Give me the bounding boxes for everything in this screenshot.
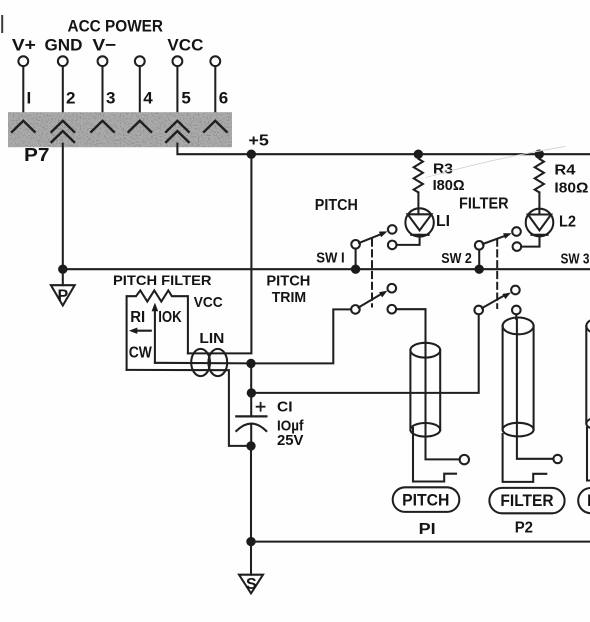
svg-text:FILTER: FILTER bbox=[500, 491, 553, 510]
C1 plus sign bbox=[257, 403, 265, 411]
terminal circle pin4 bbox=[135, 56, 145, 66]
terminal circle pin1 bbox=[18, 56, 28, 66]
svg-text:2: 2 bbox=[66, 89, 75, 108]
svg-text:RI: RI bbox=[130, 309, 145, 326]
svg-text:P2: P2 bbox=[515, 520, 533, 537]
wire to ground P bbox=[62, 269, 64, 285]
ganged link SW2 (dashed) bbox=[496, 240, 498, 309]
svg-text:SW 2: SW 2 bbox=[441, 250, 472, 267]
CW arrow bbox=[129, 328, 151, 334]
P2 output terminal bbox=[553, 455, 561, 463]
connector contact chevron pin1 bbox=[12, 121, 35, 132]
oval tag P3 (partial) bbox=[578, 488, 590, 513]
svg-text:GND: GND bbox=[45, 36, 83, 55]
svg-text:ACC POWER: ACC POWER bbox=[68, 17, 164, 36]
junction dot GND bbox=[58, 265, 67, 274]
wire ground node down bbox=[250, 446, 252, 542]
P1 lower-left lead bbox=[413, 428, 456, 482]
wire pin5 to +5 bbox=[177, 144, 251, 155]
wire pin6 bbox=[214, 66, 216, 121]
svg-text:L2: L2 bbox=[559, 213, 576, 230]
connector P7 body bbox=[8, 112, 232, 147]
wire SW2 deck2 pole to trim node bbox=[251, 314, 478, 393]
scan hairline artifact bbox=[426, 147, 565, 178]
connector contact chevron pin4 bbox=[129, 121, 152, 132]
wire R4 to L2 bbox=[538, 192, 540, 214]
terminal circle pin6 bbox=[210, 56, 220, 66]
wire pin2 bbox=[62, 66, 64, 121]
P2 lower-left lead bbox=[503, 434, 547, 482]
svg-text:FILTER: FILTER bbox=[459, 195, 509, 212]
+5 bus bbox=[251, 153, 590, 155]
svg-text:VCC: VCC bbox=[194, 294, 223, 311]
P2 shaft wire to output bbox=[517, 319, 554, 459]
ground symbol P bbox=[51, 285, 75, 305]
junction dot trim node bbox=[246, 359, 255, 368]
wire R1 wiper to node bbox=[155, 362, 251, 365]
svg-text:PITCH FILTER: PITCH FILTER bbox=[113, 272, 212, 288]
connector contact chevron pin2 (double) bbox=[52, 121, 75, 142]
svg-text:CW: CW bbox=[129, 344, 153, 361]
svg-text:R4: R4 bbox=[554, 161, 576, 178]
svg-text:P: P bbox=[57, 288, 68, 305]
junction dot ground node bbox=[246, 441, 255, 450]
switch SW2 deck2 bbox=[474, 286, 520, 315]
wire pin3 bbox=[101, 66, 103, 121]
connector contact chevron pin3 bbox=[91, 121, 114, 132]
svg-text:3: 3 bbox=[106, 89, 115, 108]
slide pot P3 body (partial) bbox=[586, 318, 590, 431]
junction dot +5 bbox=[247, 150, 256, 159]
label PITCH TRIM bbox=[266, 272, 310, 306]
slide pot P1 body bbox=[410, 343, 440, 437]
svg-text:5: 5 bbox=[181, 89, 190, 108]
junction dot R3 bbox=[414, 150, 423, 159]
svg-text:4: 4 bbox=[143, 89, 153, 108]
potentiometer R1 element bbox=[127, 290, 188, 370]
svg-text:SW I: SW I bbox=[316, 249, 345, 266]
terminal circle pin3 bbox=[98, 56, 108, 66]
P3 lower-left lead (partial) bbox=[587, 428, 590, 481]
switch SW1 deck1 bbox=[351, 225, 396, 269]
P1 shaft wire to output bbox=[426, 344, 460, 460]
wire to ground S bbox=[250, 542, 252, 575]
svg-text:V+: V+ bbox=[12, 36, 36, 55]
svg-text:25V: 25V bbox=[277, 432, 304, 449]
scan edge mark bbox=[1, 16, 3, 32]
svg-text:TRIM: TRIM bbox=[272, 289, 307, 306]
wire R3 to L1 bbox=[417, 192, 419, 214]
wire pin4 bbox=[139, 66, 141, 121]
svg-text:VCC: VCC bbox=[167, 36, 203, 55]
cable loop symbol bbox=[191, 349, 227, 376]
svg-text:PITCH: PITCH bbox=[402, 490, 449, 509]
junction dot R4 bbox=[535, 150, 544, 159]
resistor R4 bbox=[535, 154, 544, 192]
connector contact chevron pin5 (double) bbox=[166, 121, 189, 142]
wire L1 cathode to SW1 bbox=[397, 235, 420, 245]
svg-text:PITCH: PITCH bbox=[315, 197, 358, 214]
svg-text:CI: CI bbox=[277, 398, 293, 415]
wire R1 CW end to ground node bbox=[127, 370, 251, 446]
terminal circle pin5 bbox=[173, 56, 183, 66]
LED L2 bbox=[526, 209, 554, 237]
junction dot C1 node bbox=[247, 388, 256, 397]
R1 wiper arrow bbox=[152, 303, 159, 363]
junction dot SW2 bbox=[475, 265, 484, 274]
svg-text:V−: V− bbox=[92, 36, 116, 55]
svg-text:I80Ω: I80Ω bbox=[433, 177, 465, 194]
wire SW1 deck2 pole to trim node bbox=[251, 309, 351, 363]
svg-text:P7: P7 bbox=[24, 145, 50, 165]
ground symbol S bbox=[239, 575, 263, 594]
LED L1 bbox=[405, 208, 433, 236]
wire pin1 bbox=[22, 66, 24, 121]
switch SW2 deck1 bbox=[475, 227, 521, 269]
svg-text:I: I bbox=[27, 89, 32, 108]
junction dot SW1 bbox=[351, 265, 360, 274]
ganged link SW1 (dashed) bbox=[371, 240, 373, 307]
svg-text:PITCH: PITCH bbox=[266, 272, 310, 289]
svg-text:LI: LI bbox=[436, 213, 450, 230]
capacitor C1 bbox=[236, 393, 266, 446]
resistor R3 bbox=[414, 154, 423, 192]
wire L2 cathode to SW2 bbox=[521, 235, 539, 247]
svg-text:I80Ω: I80Ω bbox=[554, 180, 588, 197]
oval tag FILTER bbox=[489, 488, 564, 513]
connector contact chevron pin6 bbox=[204, 121, 227, 132]
junction dot bottom bus bbox=[246, 537, 255, 546]
GND bus bbox=[63, 268, 590, 270]
wire +5 down to VCC bbox=[188, 154, 252, 353]
svg-text:IOK: IOK bbox=[158, 309, 182, 326]
oval tag PITCH bbox=[393, 487, 460, 512]
slide pot P2 body bbox=[503, 318, 534, 437]
wire SW2 deck2 throw to P2 bbox=[515, 314, 517, 319]
wire SW1 deck2 throw to P1 bbox=[396, 309, 425, 343]
switch SW1 deck2 bbox=[351, 284, 396, 314]
terminal circle pin2 bbox=[58, 56, 68, 66]
P1 output terminal bbox=[460, 455, 469, 464]
bottom signal-ground bus bbox=[251, 541, 590, 543]
svg-text:LIN: LIN bbox=[199, 330, 224, 347]
svg-text:SW 3: SW 3 bbox=[561, 250, 590, 267]
svg-text:PI: PI bbox=[419, 521, 436, 538]
wire pin5 bbox=[176, 66, 178, 121]
svg-text:+5: +5 bbox=[248, 133, 269, 150]
wire trim node down bbox=[250, 363, 252, 393]
svg-text:S: S bbox=[246, 576, 257, 593]
svg-text:6: 6 bbox=[219, 89, 228, 108]
wire GND pin2 down bbox=[62, 144, 64, 270]
